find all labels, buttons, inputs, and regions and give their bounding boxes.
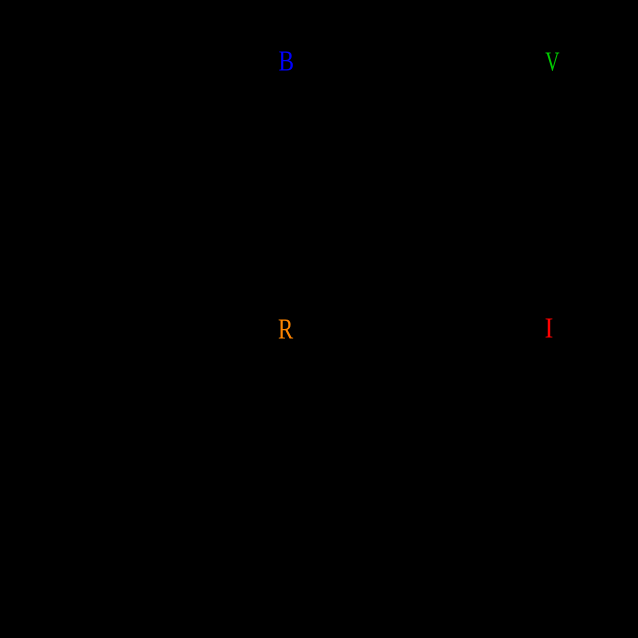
wire left (79, 61, 81, 328)
node A (78, 59, 83, 64)
svg-text:R: R (278, 313, 294, 345)
wire top-right (322, 60, 500, 62)
wire middle-left (80, 327, 300, 329)
voltmeter V (502, 43, 538, 79)
svg-text:I: I (545, 311, 554, 344)
wire middle-right (360, 327, 502, 329)
node C (598, 326, 603, 331)
wire top-left (80, 60, 300, 62)
resistor R (300, 318, 360, 338)
svg-text:B: B (279, 45, 294, 77)
battery B (310, 44, 322, 78)
svg-text:V: V (545, 47, 560, 77)
ammeter I (502, 310, 538, 346)
wire top-far-right (538, 60, 600, 62)
wire right-upper (599, 61, 601, 328)
